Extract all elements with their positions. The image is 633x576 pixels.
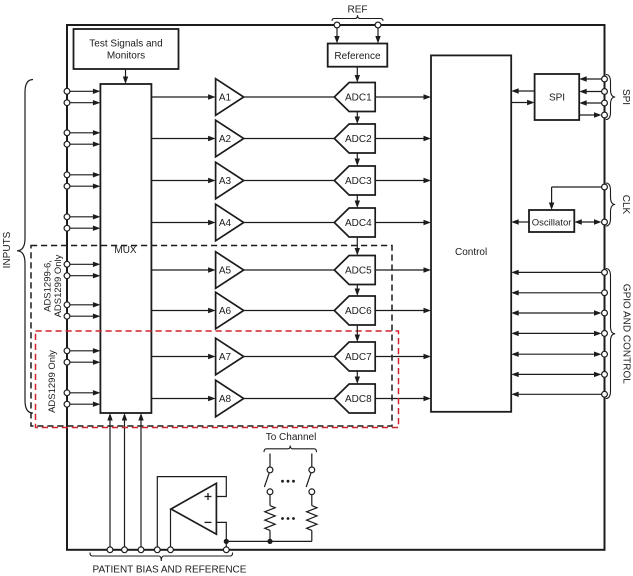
junction dot at left resistor (267, 539, 272, 544)
wire: MUX to A2 (151, 136, 215, 141)
ellipsis between resistors (281, 517, 295, 520)
Reference box (328, 44, 388, 67)
svg-text:A4: A4 (219, 218, 232, 229)
wire: GPIO/control line 2 (511, 290, 604, 295)
op-amp bias amplifier U1 (171, 483, 216, 534)
wire: A8 to ADC8 (244, 398, 335, 400)
pin IN2N (64, 141, 70, 147)
ADC5 converter (334, 256, 375, 285)
svg-text:SPI: SPI (620, 89, 631, 105)
wire: switch to resistor R2 (311, 495, 313, 506)
wire: MUX to A6 (151, 308, 215, 313)
svg-text:Test Signals and: Test Signals and (89, 39, 162, 50)
ADC6 converter (334, 296, 375, 325)
pin CLK1 (602, 184, 608, 190)
wire: ADC3 to ADC4 (355, 195, 360, 208)
pin GPIO1 (602, 270, 608, 276)
wire: Reference to ADC1 (355, 67, 360, 83)
wire: A5 to ADC5 (244, 269, 335, 271)
svg-text:Oscillator: Oscillator (532, 218, 572, 229)
wire: GPIO/control line 7 (511, 392, 604, 397)
wire: SPI pin 1 (579, 76, 604, 81)
svg-text:ADC4: ADC4 (345, 218, 372, 229)
op-amp A7 (216, 338, 244, 375)
ADC3 converter (334, 166, 375, 195)
wire: ADC7 to ADC8 (355, 371, 360, 384)
svg-text:Monitors: Monitors (107, 51, 145, 62)
ADC7 converter (334, 342, 375, 371)
pin IN7P (64, 348, 70, 354)
wire: switch to resistor R1 (269, 495, 271, 506)
wire: MUX to A4 (151, 220, 215, 225)
wire: GPIO/control line 6 (511, 372, 601, 377)
wire: GPIO/control line 3 (511, 310, 601, 315)
wire: SPI pin 3 (579, 100, 604, 105)
ADC1 converter (334, 83, 375, 112)
wire: input pins to MUX CH3 (67, 172, 100, 189)
svg-text:ADS1299 Only: ADS1299 Only (47, 350, 58, 413)
wire: ADC5 to ADC6 (355, 285, 360, 297)
wire: Oscillator to Control (511, 219, 529, 224)
wire: bias drive 1 to MUX (107, 413, 112, 550)
ADS1299 Only label (47, 350, 58, 413)
wire: A2 to ADC2 (244, 138, 335, 140)
ADC4 converter (334, 208, 375, 237)
brace To Channel (264, 446, 317, 453)
svg-text:A5: A5 (219, 266, 232, 277)
wire: ADC8 to Control (375, 396, 431, 401)
op-amp A8 (216, 380, 244, 417)
op-amp A6 (216, 292, 244, 329)
svg-text:ADS1299-6,: ADS1299-6, (43, 260, 54, 312)
brace REF (332, 15, 383, 21)
pin SPI3 (602, 100, 608, 106)
svg-text:ADC5: ADC5 (345, 266, 372, 277)
pin BIAS2 (122, 547, 128, 553)
pin GPIO5 (602, 351, 608, 357)
wire: bias drive 3 to MUX (138, 413, 143, 550)
wire: MUX to A7 (151, 354, 215, 359)
svg-text:CLK: CLK (620, 195, 631, 215)
wire: ADC1 to ADC2 (355, 112, 360, 125)
wire: ADC3 to Control (375, 178, 431, 183)
pin SPI1 (602, 76, 608, 82)
brace SPI pins (606, 75, 615, 120)
wire: input pins to MUX CH1 (67, 89, 100, 106)
switch S2 (306, 467, 314, 495)
wire: bias drive 2 to MUX (122, 413, 127, 550)
wire: input pins to MUX CH2 (67, 130, 100, 147)
pin IN5P (64, 261, 70, 267)
op-amp A4 (216, 204, 244, 241)
pin REF2 (375, 22, 381, 28)
pin IN6P (64, 302, 70, 308)
svg-text:ADC2: ADC2 (345, 134, 372, 145)
wire: A4 to ADC4 (244, 222, 335, 224)
pin IN3N (64, 183, 70, 189)
ADS1299-6 / ADS1299 Only label (43, 254, 65, 317)
wire: ADC1 to Control (375, 94, 431, 99)
wire: bus stub to BIASREF pin (225, 541, 227, 549)
wire: op-amp - input to resistor bus (216, 522, 311, 541)
pin GPIO2 (602, 290, 608, 296)
wire: ADC4 to ADC5 (355, 237, 360, 256)
wire: input pins to MUX CH5 (67, 262, 100, 279)
wire: ADC7 to Control (375, 354, 431, 359)
wire: A1 to ADC1 (244, 96, 335, 98)
wire: REF pin2 to Reference (375, 28, 380, 44)
svg-text:A1: A1 (219, 93, 232, 104)
GPIO AND CONTROL side label (621, 284, 632, 384)
svg-text:SPI: SPI (549, 93, 565, 104)
brace GPIO pins (606, 269, 615, 399)
chip boundary box (67, 25, 605, 550)
wire: SPI pin 4 (579, 112, 601, 117)
wire: left channel stub (269, 454, 271, 468)
svg-text:Control: Control (455, 247, 487, 258)
op-amp A1 (216, 79, 244, 116)
MUX box (100, 84, 151, 413)
svg-text:To Channel: To Channel (266, 432, 317, 443)
pin GPIO3 (602, 310, 608, 316)
pin IN4N (64, 225, 70, 231)
wire: input pins to MUX CH4 (67, 214, 100, 231)
wire: ADC6 to Control (375, 308, 431, 313)
brace CLK pins (606, 183, 615, 226)
pin IN2P (64, 130, 70, 136)
pin GPIO6 (602, 372, 608, 378)
pin IN6N (64, 313, 70, 319)
svg-text:ADC1: ADC1 (345, 93, 372, 104)
wire: SPI to Control (511, 88, 534, 93)
wire: MUX to A1 (151, 94, 215, 99)
wire: GPIO/control line 1 (511, 270, 604, 275)
svg-text:ADC3: ADC3 (345, 176, 372, 187)
wire: Oscillator to CLK pin (574, 219, 601, 224)
pin SPI4 (602, 112, 608, 118)
wire: right channel stub (311, 454, 313, 468)
op-amp A3 (216, 162, 244, 199)
Test Signals and Monitors box (74, 29, 179, 69)
wire: op-amp output to BIASOUT pin (170, 509, 172, 550)
Control box (431, 55, 511, 411)
svg-text:A6: A6 (219, 306, 232, 317)
wire: MUX to A8 (151, 396, 215, 401)
wire: ADC5 to Control (375, 267, 431, 272)
svg-text:INPUTS: INPUTS (2, 231, 13, 268)
svg-text:A8: A8 (219, 394, 232, 405)
pin BIAS3 (138, 547, 144, 553)
wire: REF pin1 to Reference (334, 28, 339, 44)
pin BIASOUT (168, 547, 174, 553)
wire: input pins to MUX CH7 (67, 348, 100, 365)
pin IN8P (64, 390, 70, 396)
wire: resistor R1 to bus (269, 530, 271, 541)
wire: ADC6 to ADC7 (355, 325, 360, 342)
MUX label (114, 245, 137, 256)
ellipsis between switches (281, 480, 295, 483)
CLK side label (620, 195, 631, 215)
op-amp A2 (216, 120, 244, 157)
Oscillator box (529, 210, 574, 232)
wire: Test Signals to MUX (123, 69, 128, 84)
wire: MUX to A5 (151, 267, 215, 272)
To Channel label (266, 432, 317, 443)
pin GPIO7 (602, 391, 608, 397)
pin IN7N (64, 359, 70, 365)
svg-text:GPIO AND CONTROL: GPIO AND CONTROL (621, 284, 632, 384)
pin IN1N (64, 100, 70, 106)
switch S1 (264, 467, 273, 495)
wire: ADC4 to Control (375, 220, 431, 225)
SPI side label (620, 89, 631, 105)
wire: MUX to A3 (151, 178, 215, 183)
pin GPIO4 (602, 331, 608, 337)
svg-text:PATIENT BIAS AND REFERENCE: PATIENT BIAS AND REFERENCE (93, 565, 247, 576)
wire: input pins to MUX CH8 (67, 390, 100, 407)
junction dot at op-amp bus (224, 539, 229, 544)
wire: input pins to MUX CH6 (67, 302, 100, 319)
pin BIASINV (154, 547, 160, 553)
ADC2 converter (334, 124, 375, 153)
svg-text:ADC7: ADC7 (345, 352, 372, 363)
PATIENT BIAS AND REFERENCE label (93, 565, 247, 576)
pin IN4P (64, 214, 70, 220)
wire: resistor R2 to bus (311, 530, 313, 541)
svg-text:ADC6: ADC6 (345, 306, 372, 317)
wire: ADC2 to Control (375, 136, 431, 141)
pin CLK2 (602, 219, 608, 225)
wire: Control to SPI (511, 100, 534, 105)
wire: ADC2 to ADC3 (355, 153, 360, 166)
wire: GPIO/control line 4 (511, 331, 601, 336)
svg-text:MUX: MUX (114, 245, 137, 256)
ADS1299-6/ADS1299 dashed region (31, 246, 392, 427)
svg-text:A2: A2 (219, 134, 232, 145)
svg-text:Reference: Reference (334, 51, 381, 62)
wire: A3 to ADC3 (244, 180, 335, 182)
pin REF1 (334, 22, 340, 28)
wire: A7 to ADC7 (244, 356, 335, 358)
resistor R1 (265, 506, 275, 531)
SPI box (535, 74, 580, 120)
svg-text:REF: REF (348, 5, 368, 16)
brace PATIENT BIAS (90, 553, 233, 562)
wire: SPI pin 2 (579, 89, 604, 94)
svg-text:A3: A3 (219, 176, 232, 187)
pin IN5N (64, 273, 70, 279)
ADC8 converter (334, 384, 375, 413)
pin BIASREF (223, 547, 229, 553)
pin IN1P (64, 88, 70, 94)
ADS1299-only red dashed region (36, 331, 399, 428)
wire: GPIO/control line 5 (511, 352, 601, 357)
wire: CLKSEL pin to Oscillator (549, 187, 605, 210)
svg-text:ADC8: ADC8 (345, 394, 372, 405)
op-amp A5 (216, 252, 244, 289)
pin BIAS1 (107, 547, 113, 553)
wire: A6 to ADC6 (244, 310, 335, 312)
INPUTS label (2, 231, 13, 268)
svg-text:A7: A7 (219, 352, 232, 363)
pin IN3P (64, 172, 70, 178)
brace INPUTS (17, 80, 33, 414)
pin IN8N (64, 401, 70, 407)
svg-text:ADS1299 Only: ADS1299 Only (53, 254, 64, 317)
wire: feedback from BIASINV pin to op-amp + input (157, 477, 226, 550)
pin SPI2 (602, 89, 608, 95)
REF label (348, 5, 368, 16)
resistor R2 (307, 506, 317, 531)
